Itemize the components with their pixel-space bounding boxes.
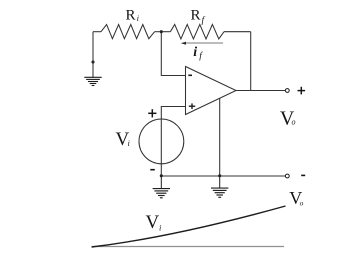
wire: right vertical feedback down to output (250, 32, 252, 91)
source minus sign (150, 169, 155, 171)
svg-text:V: V (146, 212, 160, 233)
wire: output from op-amp apex to terminal (236, 90, 285, 92)
svg-text:i: i (159, 222, 162, 232)
junction dot source bottom (160, 174, 163, 177)
svg-text:R: R (191, 8, 201, 24)
wire: noninverting input from source top corner (161, 107, 185, 177)
source plus sign (148, 109, 156, 117)
ground (below source Vi) (153, 176, 170, 198)
svg-text:f: f (202, 15, 206, 26)
svg-text:R: R (126, 8, 136, 24)
resistor Ri zigzag (101, 25, 155, 39)
wire: top rail segment before Ri (93, 31, 101, 33)
wire: top rail after Rf to right corner (224, 31, 251, 33)
op-amp minus sign (188, 74, 192, 76)
current arrow i_f (points left) (181, 42, 223, 45)
graph baseline (gray) (92, 246, 284, 248)
node A junction dot (between Ri and Rf) (160, 30, 163, 33)
wire: vertical from op-amp lower edge to ground rail (219, 99, 221, 177)
wire: bottom ground rail (161, 175, 285, 177)
svg-text:o: o (300, 199, 304, 208)
junction dot on left input wire (91, 60, 94, 63)
output plus sign (298, 87, 306, 95)
wire: left vertical from top rail to input ground (92, 32, 94, 78)
svg-text:i: i (193, 45, 197, 60)
ground (below op-amp branch) (211, 176, 228, 197)
wire: top rail between Ri and Rf (155, 31, 171, 33)
svg-text:o: o (292, 118, 296, 127)
wire: inverting input branch from node A down and right (161, 32, 185, 76)
source Vi circle (139, 119, 184, 164)
svg-text:i: i (128, 138, 131, 148)
op-amp plus sign (189, 103, 195, 109)
terminal: output + open circle (285, 89, 289, 93)
resistor Rf zigzag (170, 24, 224, 39)
junction dot load ground (218, 174, 221, 177)
ground (input, left) (84, 77, 101, 85)
graph curve Vi->Vo ramp (92, 206, 286, 247)
op-amp U1 triangle (186, 67, 237, 115)
output minus sign (301, 174, 305, 176)
svg-text:i: i (137, 13, 140, 23)
terminal: output - open circle (285, 174, 289, 178)
svg-text:f: f (199, 51, 203, 62)
